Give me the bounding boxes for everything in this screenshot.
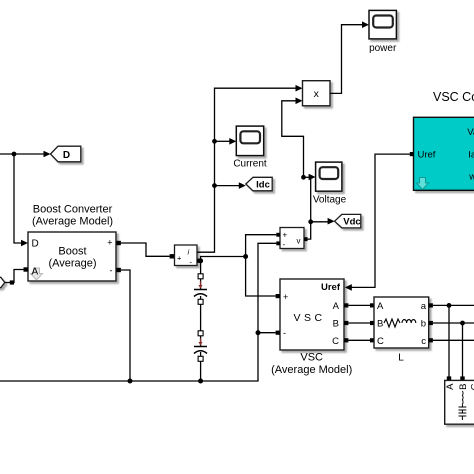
svg-text:+: +	[283, 292, 288, 302]
svg-text:B: B	[458, 384, 469, 390]
wire phase a down to measurement block	[448, 305, 450, 376]
node junction on D wire	[12, 152, 17, 157]
wire current measurement signal output up to product	[197, 88, 297, 252]
svg-text:power: power	[369, 43, 397, 54]
from tag at left edge (clipped)	[0, 277, 5, 287]
svg-text:(Average): (Average)	[48, 258, 96, 270]
svg-text:VSC: VSC	[300, 352, 323, 364]
svg-text:C: C	[469, 383, 474, 390]
node junction phase a	[447, 303, 452, 308]
Boost variant badge (gray down arrow)	[31, 267, 43, 281]
block L three-phase inductor	[374, 297, 429, 348]
wire capacitor chain vertical	[200, 261, 202, 381]
node junction Voltage scope feed	[301, 175, 306, 180]
wire VSC C to L C	[348, 339, 370, 341]
current measurement - terminal port	[197, 259, 201, 263]
wire phase c to right edge	[433, 339, 474, 341]
svg-text:Voltage: Voltage	[313, 195, 347, 206]
VSC - input port	[276, 331, 280, 335]
svg-text:x: x	[314, 88, 320, 100]
svg-text:(Average Model): (Average Model)	[271, 364, 352, 376]
svg-text:(Average Model): (Average Model)	[32, 216, 113, 228]
L input ports A B C	[370, 303, 374, 342]
wire Uref from controller to VSC	[345, 154, 410, 291]
V measurement output port	[304, 237, 308, 241]
node junction DC+	[243, 254, 248, 259]
wire DC- net: V- down to VSC- and ground bus	[0, 243, 276, 381]
svg-text:+: +	[107, 238, 112, 248]
svg-text:a: a	[421, 301, 427, 312]
wire V measurement output up to Voltage scope line	[307, 177, 311, 239]
wire Boost + to current measurement input	[121, 243, 170, 256]
wire from junction down to Boost D input	[14, 154, 28, 246]
label VSC (Average Model)	[271, 352, 352, 377]
scope Voltage	[316, 162, 342, 191]
svg-text:Ia: Ia	[468, 150, 474, 161]
svg-text:Va: Va	[467, 127, 474, 138]
goto tag Idc	[246, 177, 272, 191]
svg-text:A: A	[377, 301, 384, 312]
label Boost Converter (Average Model)	[32, 204, 113, 228]
svg-text:VSC: VSC	[293, 312, 325, 324]
node junction phase b	[460, 321, 465, 326]
arrow into product bottom input	[296, 98, 303, 105]
svg-text:L: L	[398, 353, 404, 364]
goto tag Vdc	[335, 214, 361, 228]
svg-text:B: B	[377, 319, 383, 330]
svg-text:C: C	[332, 336, 339, 347]
VSC output ports A B C	[344, 303, 348, 342]
svg-text:b: b	[421, 319, 426, 330]
Boost + output port	[116, 241, 121, 245]
scope power	[369, 10, 396, 39]
VSC Controller Uref port	[410, 152, 414, 156]
node junction to Idc tag	[212, 183, 217, 188]
arrow into product top input	[296, 85, 303, 92]
node junction to Current scope	[212, 139, 217, 144]
svg-text:B: B	[333, 319, 339, 330]
wire from left edge to D goto tag	[0, 151, 51, 158]
V measurement - input port	[276, 241, 280, 245]
svg-text:Vdc: Vdc	[343, 217, 360, 228]
scope Current	[236, 126, 263, 156]
wire phase b to right edge	[433, 322, 474, 324]
svg-text:Current: Current	[233, 159, 267, 170]
capacitor C2 branch	[194, 331, 207, 362]
svg-text:A: A	[32, 267, 39, 278]
block product x	[303, 81, 331, 106]
svg-text:VSC Controller: VSC Controller	[433, 90, 474, 104]
svg-text:D: D	[32, 239, 39, 250]
L output ports a b c	[429, 303, 433, 342]
wire into Voltage scope	[304, 174, 316, 181]
svg-text:Uref: Uref	[418, 150, 436, 161]
node junction bus capacitor chain	[198, 379, 203, 384]
wire Boost - to bus	[121, 270, 130, 381]
svg-text:v: v	[297, 237, 301, 246]
wire to Vdc tag	[311, 218, 335, 225]
wire from from-tag to Boost A input	[5, 270, 24, 285]
VSC + input port	[276, 294, 280, 298]
svg-text:D: D	[63, 150, 70, 161]
wire phase a to right edge	[433, 304, 474, 306]
V measurement + input port	[276, 233, 280, 237]
node junction Vdc	[308, 219, 313, 224]
current measurement input port	[170, 254, 175, 258]
svg-text:C: C	[377, 336, 384, 347]
block V voltage measurement	[280, 228, 304, 250]
wire phase b down to measurement block	[462, 323, 464, 377]
wire to Current scope	[215, 138, 237, 145]
svg-text:-: -	[283, 328, 286, 338]
wire VSC A to L A	[348, 304, 370, 306]
svg-text:Idc: Idc	[256, 180, 270, 191]
block VSC Controller (teal)	[414, 117, 474, 190]
node junction DC- at VSC	[256, 330, 261, 335]
block Boost (Average)	[28, 232, 116, 281]
wire DC+ net: current meas terminal to V+ and VSC+	[201, 235, 277, 296]
Boost - output port	[116, 268, 121, 272]
svg-text:-: -	[110, 266, 113, 276]
svg-text:Uref: Uref	[321, 282, 341, 293]
svg-text:-: -	[283, 240, 286, 249]
block VSC (Average Model)	[280, 279, 344, 350]
wire product output to power scope	[330, 21, 369, 93]
measurement block top ports	[447, 376, 465, 380]
svg-text:w: w	[468, 172, 474, 183]
node junction current measurement terminal	[198, 258, 203, 263]
svg-text:A: A	[445, 383, 456, 390]
svg-text:Boost Converter: Boost Converter	[33, 204, 113, 216]
svg-text:Boost: Boost	[58, 246, 86, 258]
svg-text:c: c	[421, 336, 426, 347]
wire product bottom input path	[282, 101, 304, 178]
block current measurement I1	[175, 245, 198, 267]
block three-phase branch (rotated)	[445, 380, 474, 424]
wire VSC B to L B	[348, 322, 370, 324]
svg-text:+: +	[283, 231, 288, 240]
wire to Idc tag	[215, 182, 246, 189]
capacitor C1 branch	[194, 274, 207, 305]
VSC Controller badge (teal down arrow)	[417, 178, 429, 190]
goto tag D	[51, 146, 81, 162]
svg-text:+: +	[177, 254, 182, 263]
node junction bus left	[128, 379, 133, 384]
Boost A input port	[24, 267, 29, 271]
svg-text:A: A	[333, 301, 340, 312]
